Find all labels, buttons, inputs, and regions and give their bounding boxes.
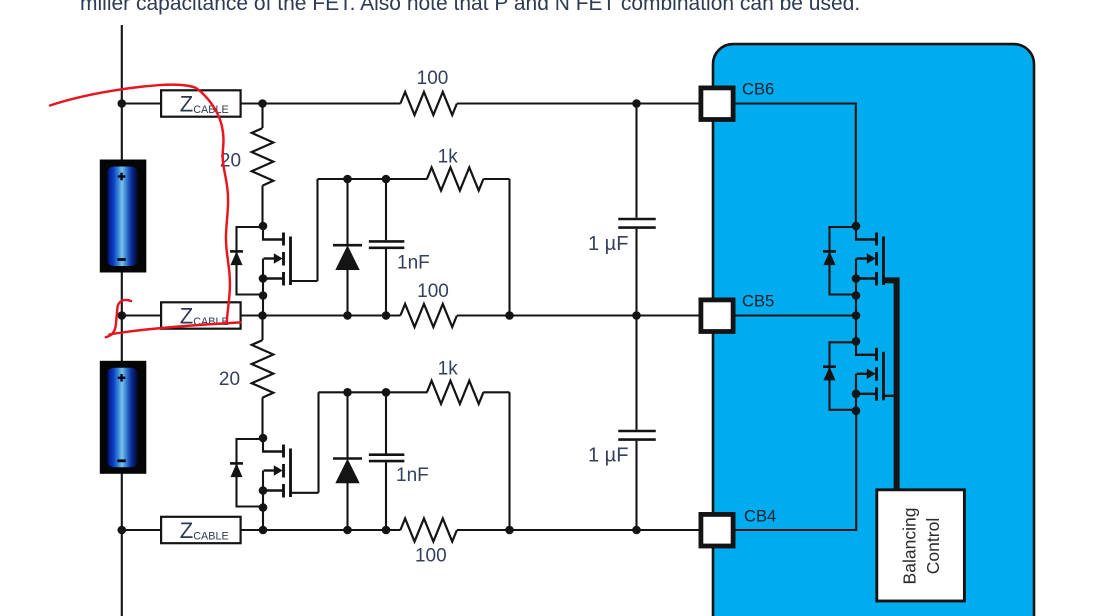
svg-text:100: 100 [417, 281, 449, 302]
svg-text:1 µF: 1 µF [588, 233, 628, 255]
svg-text:1nF: 1nF [397, 253, 430, 274]
svg-text:Balancing: Balancing [900, 508, 920, 585]
svg-text:1 µF: 1 µF [588, 445, 628, 467]
svg-text:CB6: CB6 [742, 80, 774, 99]
svg-text:Control: Control [923, 518, 943, 574]
svg-text:1k: 1k [438, 358, 459, 379]
svg-text:20: 20 [219, 369, 240, 390]
svg-text:CB5: CB5 [742, 292, 774, 311]
svg-text:miller capacitance of the FET.: miller capacitance of the FET. Also note… [80, 0, 860, 15]
svg-text:1k: 1k [438, 147, 459, 168]
svg-text:CB4: CB4 [744, 506, 776, 525]
svg-text:100: 100 [417, 68, 449, 89]
svg-text:1nF: 1nF [396, 465, 429, 486]
svg-text:100: 100 [415, 546, 447, 567]
